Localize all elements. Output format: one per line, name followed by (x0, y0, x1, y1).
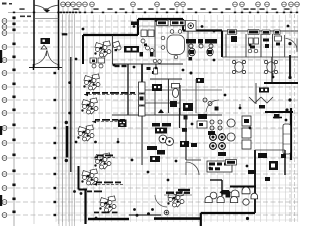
building top wall east (183, 29, 222, 31)
lobby door arcs bottom (34, 51, 58, 65)
couch right (283, 124, 291, 154)
corridor dashes (115, 65, 127, 67)
desk cluster C1b extra (112, 41, 120, 48)
big conference table (167, 35, 185, 55)
west small office cluster (141, 30, 154, 53)
top wall step 2 (182, 19, 184, 31)
lobby label (41, 38, 51, 44)
bottom annotation dashes (94, 212, 118, 214)
symbol dots (68, 19, 289, 219)
desk cluster C6 (100, 198, 108, 205)
right room fixtures (227, 119, 235, 141)
symbol arrows (118, 64, 273, 142)
toilet block east (186, 39, 196, 44)
annotation T5 (87, 191, 102, 193)
desk cluster C3 (82, 100, 90, 107)
NE room clusters (248, 36, 281, 53)
central room walls (127, 64, 129, 115)
lounge chairs (231, 187, 250, 205)
bottom dots and circle (136, 214, 139, 217)
circle symbol K (186, 21, 197, 32)
waiting chairs row (205, 193, 258, 202)
arrow label mid (222, 190, 230, 195)
desk cluster C5b (82, 171, 90, 178)
small circles central (210, 120, 222, 130)
corner marks top-left (2, 3, 31, 18)
urinals (153, 59, 161, 74)
corridor wall (112, 35, 114, 64)
canopy tick (62, 33, 68, 35)
toilet tank (172, 84, 180, 89)
entrance door arcs top (35, 5, 59, 11)
label block central right (180, 141, 189, 147)
closet column (139, 82, 146, 116)
entrance vestibule walls (33, 0, 35, 67)
wc symbols (189, 57, 193, 61)
kitchen fixtures central (152, 123, 160, 127)
bundle crossing ticks (54, 72, 57, 216)
building top wall mid (138, 18, 183, 20)
annotation T2 (96, 182, 121, 184)
corridor label box small (226, 160, 237, 166)
fixture rects central (196, 78, 204, 83)
lounge black fixtures (248, 170, 256, 174)
desk cluster C5 (95, 155, 103, 162)
desk cluster C4 (78, 127, 86, 134)
annotation T1 (86, 92, 135, 94)
central upper room walls (154, 19, 156, 57)
reception counter (210, 179, 222, 181)
top grid bubbles (61, 2, 300, 13)
left dimension line (13, 16, 15, 226)
label left of step (131, 22, 137, 26)
door arc central (186, 162, 199, 175)
right margin grid (290, 14, 295, 224)
bottom wall segments (88, 218, 129, 221)
lounge room walls (254, 150, 256, 213)
door arc right room (286, 39, 298, 52)
annotation T4 (166, 189, 190, 194)
triangle glyph room (158, 109, 164, 113)
central corridor walls (185, 115, 187, 160)
annotation T6 (95, 119, 125, 121)
page edge marks left (0, 50, 2, 206)
desk cluster C7 (168, 193, 176, 200)
washroom walls (150, 78, 182, 80)
right wing walls (221, 31, 223, 58)
entrance center wedge (44, 10, 50, 13)
desk cluster C2 (84, 76, 92, 83)
door arc mid (155, 195, 167, 207)
wall x179 (179, 108, 181, 128)
canopy line bundle (59, 14, 75, 226)
conference label (124, 46, 139, 53)
top dimension line (8, 12, 298, 14)
labels under mid wall (157, 20, 169, 25)
desk cluster C1 (95, 43, 103, 50)
fine vertical grid (56, 15, 298, 222)
heavy wall segment left (66, 126, 69, 158)
pantry cluster (198, 114, 207, 119)
right wall door dots (288, 76, 291, 79)
PBX label (118, 120, 127, 128)
door arc washroom (206, 100, 219, 112)
left wall (70, 57, 72, 172)
lobby south wall (29, 67, 62, 69)
top wall step (137, 19, 139, 35)
laundry circles (210, 134, 226, 150)
top desk pair (90, 58, 97, 63)
toilet room central fixtures (173, 89, 179, 98)
corridor label box big (207, 161, 232, 172)
right wall upper (289, 55, 291, 76)
meeting tables right wing (235, 62, 275, 72)
west corner wall (82, 35, 84, 64)
annotation T3 (97, 155, 113, 157)
cabinets right column (242, 116, 251, 149)
left vertical construction lines (34, 70, 59, 224)
right wing desks top (228, 29, 280, 34)
core room bits (147, 67, 156, 74)
building top wall west (83, 34, 138, 36)
structural grid lines horizontal (8, 21, 298, 215)
left grid bubbles (2, 19, 7, 218)
fine horizontal grid (56, 38, 298, 220)
black block right (274, 114, 280, 119)
right wing mid fixtures (259, 88, 269, 93)
